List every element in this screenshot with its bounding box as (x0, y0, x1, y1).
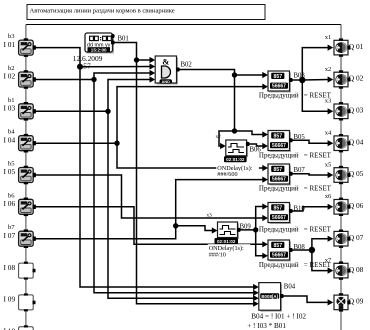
svg-text:1:57: 1:57 (78, 62, 91, 71)
pin B09 output (237, 228, 241, 232)
junction I07 net (173, 223, 178, 228)
timer B06 (224, 140, 248, 162)
junction B01 net (134, 57, 139, 62)
svg-text:= RESET: = RESET (304, 185, 332, 193)
arrowhead B09 pin (212, 227, 218, 233)
svg-text:15:2:00: 15:2:00 (91, 48, 107, 53)
input I02 (19, 70, 36, 89)
svg-text:x2: x2 (325, 66, 332, 73)
input I03 (19, 102, 36, 121)
svg-text:B008[A]: B008[A] (261, 294, 278, 299)
svg-text:Q 03: Q 03 (349, 106, 364, 115)
arrowhead Q07 pin (328, 236, 334, 242)
svg-text:B02: B02 (181, 62, 193, 69)
svg-text:###/600: ###/600 (217, 171, 237, 178)
wire I07 to B09 input (176, 226, 214, 231)
arrowhead Q01 pin (328, 45, 334, 51)
label B09 type (208, 244, 251, 251)
arrowhead B02 pin1 (150, 57, 156, 63)
wire B05 to Q04 (291, 140, 329, 143)
wire B09 to B10 in1 (256, 207, 264, 230)
label B09 value (208, 251, 228, 257)
arrowhead Q06 pin (328, 204, 334, 210)
arrowhead Q08 pin (328, 267, 334, 273)
svg-text:x6: x6 (325, 193, 332, 200)
svg-text:I 04: I 04 (3, 135, 15, 144)
svg-text:I 10: I 10 (3, 327, 15, 330)
pin B03 output (289, 78, 293, 82)
wire B09 output (239, 229, 256, 231)
wire I02 to B02 in3 (94, 73, 151, 80)
and-gate B02 (155, 56, 178, 85)
junction I01 net (77, 64, 83, 70)
svg-text:Q 09: Q 09 (349, 297, 364, 306)
wire B01 output (114, 43, 137, 61)
wire I07 to B07 in2 (36, 180, 265, 239)
counter B03 (268, 71, 291, 93)
arrowhead Q02 pin (328, 76, 334, 82)
arrowhead B02 pin3 (150, 70, 156, 76)
output Q01 (334, 38, 351, 56)
wire B09 to B08 in2 (256, 230, 264, 256)
svg-text:B04: B04 (284, 284, 296, 291)
svg-text:+ ! I03 * B01: + ! I03 * B01 (247, 322, 286, 330)
label B06 value (216, 171, 239, 177)
wire I01 to junction (36, 48, 81, 67)
wire I04 to junction (36, 142, 118, 144)
wire I03 to B02 in4 (108, 80, 151, 112)
svg-text:Автоматизация линии раздачи ко: Автоматизация линии раздачи кормов в сви… (30, 8, 175, 15)
svg-text:I 03: I 03 (3, 104, 15, 113)
svg-text:I 09: I 09 (3, 295, 15, 304)
counter B10 (268, 203, 291, 225)
svg-text:AND: AND (162, 80, 170, 84)
pin B05 output (289, 138, 293, 142)
input I10 (unused, clipped) (19, 325, 36, 330)
arrowhead Q03 pin (328, 108, 334, 114)
input I05 (19, 166, 36, 185)
svg-text:x1: x1 (325, 34, 332, 41)
counter B08 (268, 240, 291, 262)
wire input rail (25, 25, 27, 330)
svg-text:I 01: I 01 (3, 40, 15, 49)
arrowhead B05 pin2 (262, 143, 268, 149)
wire I04 to B03 in2 (117, 87, 264, 144)
junction B03 net (299, 77, 305, 83)
arrowhead B04 pin4 (253, 301, 259, 307)
input I09 (unused) (19, 293, 36, 311)
title box (27, 5, 265, 20)
wire B02 net vertical (234, 75, 236, 131)
output Q05 (334, 166, 351, 184)
wire B01 to B02 in1 (137, 59, 152, 61)
pin B10 output (289, 209, 293, 213)
clock B01 (85, 33, 115, 54)
junction I03 net (105, 109, 110, 114)
wire B02 to B05 in1 (235, 131, 265, 135)
label B06 type (216, 164, 258, 171)
wire B03 to Q01 (302, 48, 329, 80)
wire I04 to B07 in1 (117, 143, 264, 168)
wire I02 to junction (36, 79, 95, 81)
output Q06 (334, 198, 351, 216)
wire B01 to B04 in4 (137, 60, 256, 304)
wire I02 to B04 in2 (94, 80, 255, 293)
svg-text:Предыдущий: Предыдущий (259, 185, 299, 193)
svg-text:Q 06: Q 06 (349, 201, 364, 210)
input I01 (19, 38, 36, 57)
arrowhead B07 pin1 (262, 165, 268, 171)
wire top rail (26, 24, 341, 26)
arrowhead B08 pin1 (262, 241, 268, 247)
arrowhead B05 pin1 (262, 131, 268, 137)
svg-text:02:01:02: 02:01:02 (217, 239, 236, 244)
counter B05 (268, 131, 291, 153)
arrowhead B03 pin2 (262, 84, 268, 90)
svg-text:= RESET: = RESET (304, 225, 332, 233)
arrowhead B02 pin2 (150, 63, 156, 69)
arrowhead B03 pin1 (262, 72, 268, 78)
input I08 (unused) (19, 262, 36, 280)
junction B09 net (253, 227, 258, 232)
junction I02 net (91, 77, 96, 82)
svg-text:B04 = ! I01 + ! I02: B04 = ! I01 + ! I02 (251, 313, 306, 321)
pin B02 output (176, 68, 180, 72)
input I04 (19, 134, 36, 153)
arrowhead Q09 pin (328, 299, 334, 305)
svg-text:I 02: I 02 (3, 72, 15, 81)
svg-text:Q 04: Q 04 (349, 137, 364, 146)
wire I06 to B08 in1 (36, 207, 265, 245)
svg-text:Q 02: Q 02 (349, 74, 364, 83)
wire B04 to Q09 (282, 296, 329, 302)
wire B07 to Q05 (291, 174, 329, 175)
svg-text:B06: B06 (250, 147, 262, 154)
svg-text:x3: x3 (207, 213, 213, 219)
output Q02 (334, 70, 351, 88)
wire I01 to B04 in1 (80, 67, 255, 287)
svg-text:B01: B01 (118, 36, 129, 43)
wire I05 to B10 in2 (36, 175, 265, 218)
svg-text:I 07: I 07 (3, 231, 15, 240)
wire I01 to B02 in2 (80, 66, 151, 68)
wire I03 to B04 in3 (108, 111, 255, 298)
svg-text:x4: x4 (325, 130, 332, 137)
svg-text:Q 05: Q 05 (349, 169, 364, 178)
wire output rail (340, 25, 342, 330)
wire I03 to junction (36, 110, 109, 112)
svg-text:I 05: I 05 (3, 167, 15, 176)
arrowhead B10 pin1 (262, 203, 268, 209)
arrowhead B10 pin2 (262, 215, 268, 221)
input I07 (19, 229, 36, 248)
junction I04 net (114, 141, 119, 146)
arrowhead B04 pin2 (253, 290, 259, 296)
svg-text:02:01:02: 02:01:02 (226, 157, 245, 162)
svg-text:Предыдущий: Предыдущий (259, 92, 299, 100)
output Q08 (334, 261, 351, 279)
wire B08 to Q08 (312, 250, 329, 271)
output Q07 (334, 230, 351, 248)
svg-text:x2: x2 (216, 134, 222, 140)
wire B08 to Q07 (312, 239, 329, 250)
arrowhead Q04 pin (328, 140, 334, 146)
svg-text:= RESET: = RESET (304, 151, 332, 159)
arrowhead B08 pin2 (262, 253, 268, 259)
junction B02 net lower (232, 128, 237, 133)
arrowhead Q05 pin (328, 172, 334, 178)
output Q03 (334, 102, 351, 120)
arrowhead B04 pin1 (253, 284, 259, 290)
arrowhead B02 pin4 (150, 76, 156, 82)
pin B08 output (289, 248, 293, 252)
wire B03 to Q02 (302, 79, 329, 82)
pin B06 output (246, 142, 250, 146)
counter B07 (268, 164, 291, 186)
svg-text:B07: B07 (294, 167, 306, 174)
output Q04 (334, 134, 351, 152)
svg-text:I 08: I 08 (3, 263, 15, 272)
wire B02 output (178, 70, 235, 76)
wire B10 to Q06 (291, 207, 329, 211)
logic block B04 (259, 283, 282, 312)
svg-text:Предыдущий: Предыдущий (259, 261, 299, 269)
output Q09 (334, 293, 351, 311)
svg-text:Q 01: Q 01 (349, 42, 364, 51)
svg-text:Q 07: Q 07 (349, 233, 364, 242)
svg-text:Предыдущий: Предыдущий (259, 225, 299, 233)
timer B09 (215, 222, 240, 244)
wire B02 to B06 input (219, 131, 235, 146)
svg-text:x5: x5 (325, 161, 332, 168)
junction B02 net upper (232, 72, 237, 77)
svg-text:x3: x3 (325, 98, 332, 105)
svg-text:&: & (162, 57, 169, 67)
wire B03 to Q03 (302, 80, 329, 111)
svg-text:###/10: ###/10 (209, 251, 226, 258)
input I06 (19, 198, 36, 217)
wire B03 output (291, 79, 303, 81)
svg-text:Предыдущий: Предыдущий (259, 151, 299, 159)
wire B02 to B03 in1 (235, 74, 265, 76)
arrowhead B06 pin (220, 143, 226, 149)
svg-text:x7: x7 (325, 257, 332, 264)
junction B08 net (309, 247, 315, 253)
pin B07 output (289, 172, 293, 176)
pin B04 output (280, 294, 284, 298)
arrowhead B04 pin3 (253, 295, 259, 301)
arrowhead B07 pin2 (262, 177, 268, 183)
wire B06 to B05 in2 (248, 144, 265, 146)
svg-text:I 06: I 06 (3, 199, 15, 208)
svg-text:Q 08: Q 08 (349, 265, 364, 274)
wire B08 output (291, 249, 312, 251)
